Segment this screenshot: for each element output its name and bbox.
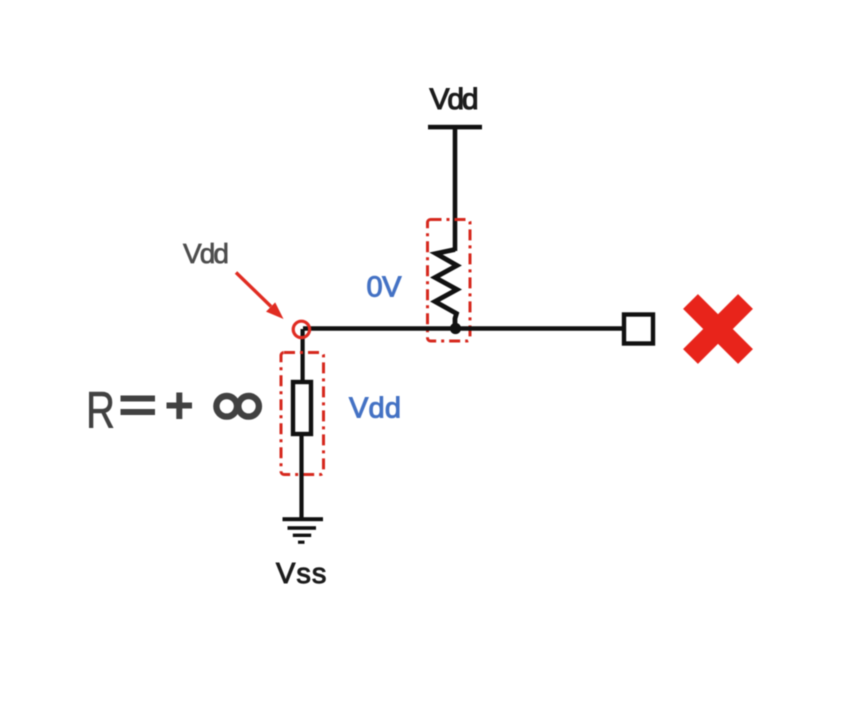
- red X mark (error): [691, 302, 746, 357]
- svg-text:Vss: Vss: [276, 558, 327, 590]
- red arrow to node: [236, 273, 271, 307]
- wire Vdd rail to resistor R1: [453, 127, 458, 251]
- label R=+infinity : plus sign: [167, 393, 193, 420]
- power rail Vdd bar: [428, 125, 482, 130]
- label R=+infinity : infinity symbol: [216, 396, 259, 417]
- ground symbol: [283, 517, 324, 544]
- svg-text:Vdd: Vdd: [349, 393, 401, 425]
- svg-text:R: R: [86, 382, 115, 440]
- wire R2 to ground: [299, 434, 303, 519]
- resistor R2 (pull-down, box symbol): [293, 382, 311, 434]
- svg-text:Vdd: Vdd: [183, 238, 229, 269]
- label R=+infinity : equals sign: [121, 396, 156, 416]
- highlight box around R1 (red dash-dot): [428, 220, 471, 342]
- svg-text:Vdd: Vdd: [430, 83, 479, 116]
- svg-text:0V: 0V: [367, 272, 403, 304]
- junction node dot: [450, 323, 461, 334]
- resistor R1 (pull-up zigzag): [435, 250, 457, 331]
- highlight box around R2 (red dash-dot): [281, 353, 324, 475]
- output terminal square: [624, 315, 653, 344]
- wire node down to resistor R2: [301, 329, 305, 383]
- wire node to output square: [303, 326, 623, 330]
- node circle (red, input pin): [293, 321, 309, 337]
